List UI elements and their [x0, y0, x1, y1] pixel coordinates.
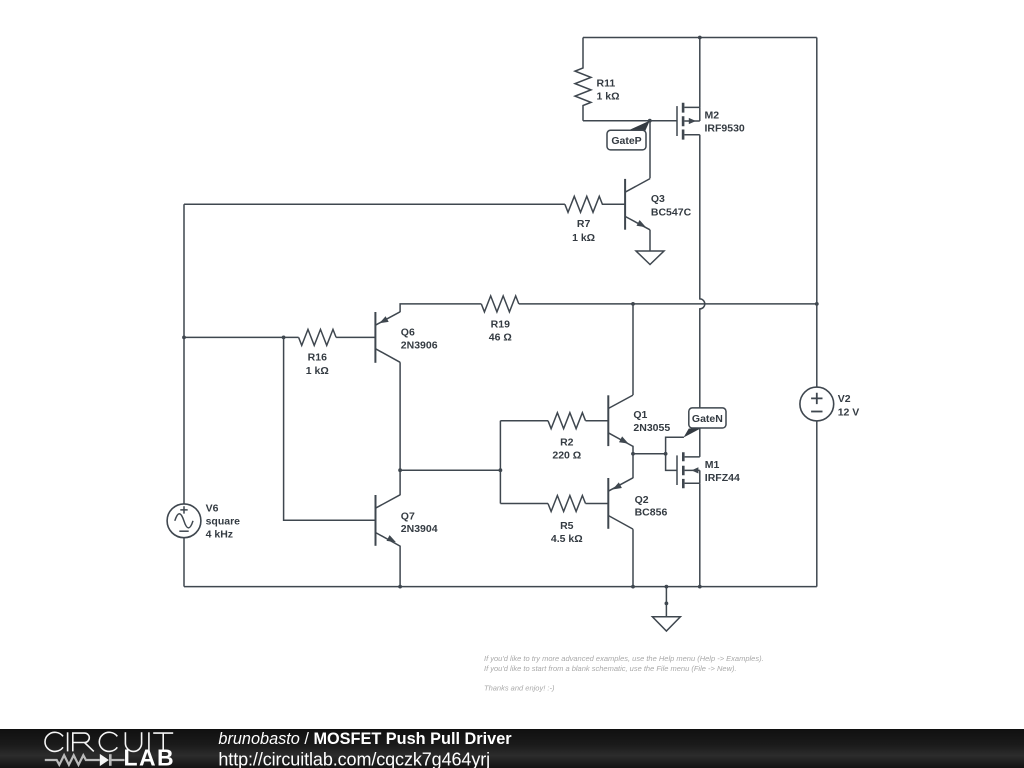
- svg-text:BC547C: BC547C: [651, 206, 692, 218]
- svg-text:M1: M1: [705, 459, 720, 471]
- junction R2R5 loop: [499, 468, 503, 472]
- wire Q7 base branch: [284, 337, 375, 520]
- wire Q1 emitter to node row: [633, 446, 666, 454]
- junction GateP node: [648, 119, 652, 123]
- svg-text:2N3904: 2N3904: [401, 523, 438, 535]
- svg-text:4 kHz: 4 kHz: [206, 529, 233, 541]
- wire R16 base net: [184, 336, 375, 338]
- wire GateN riser: [666, 437, 684, 454]
- wire M2 drain to M1 drain with hop over rail: [700, 135, 705, 457]
- svg-text:square: square: [206, 516, 241, 528]
- source V6: [167, 504, 201, 538]
- junction Q7 collector crossbar: [398, 468, 402, 472]
- svg-text:IRFZ44: IRFZ44: [705, 472, 740, 484]
- mosfet M1: [677, 452, 700, 488]
- svg-text:R16: R16: [308, 352, 327, 364]
- mosfet M2: [677, 103, 700, 140]
- wire Q3 collector riser: [649, 121, 651, 179]
- transistor Q3: [625, 179, 650, 251]
- wire left rail upper: [183, 204, 185, 504]
- wire M1 gate lead: [666, 454, 677, 471]
- wire Q7 emitter drop: [399, 546, 401, 587]
- svg-text:R7: R7: [577, 218, 591, 230]
- node flag GateP: [607, 121, 650, 150]
- arrow M2 body: [689, 118, 696, 124]
- svg-text:If you'd like to start from a: If you'd like to start from a blank sche…: [484, 664, 737, 673]
- resistor R2: [548, 413, 586, 429]
- junction ground stub: [665, 602, 669, 606]
- junction left rail R16: [182, 336, 186, 340]
- node flag GateN: [684, 408, 727, 438]
- wire Q6 emitter to rail: [400, 304, 817, 312]
- svg-text:46 Ω: 46 Ω: [489, 332, 512, 344]
- svg-text:Q3: Q3: [651, 193, 665, 205]
- svg-text:Q2: Q2: [635, 494, 649, 506]
- junction output row right: [664, 452, 668, 456]
- wire M2 source to top rail: [699, 38, 701, 108]
- svg-text:12 V: 12 V: [838, 406, 860, 418]
- resistor R7: [565, 196, 625, 212]
- transistor Q6: [375, 312, 400, 363]
- arrow Q2 emitter: [613, 482, 622, 489]
- svg-text:220 Ω: 220 Ω: [552, 449, 581, 461]
- wire right rail lower: [816, 421, 818, 587]
- logo CIRCUIT wordmark: [45, 732, 173, 751]
- arrow Q6 emitter: [379, 316, 388, 323]
- svg-text:V6: V6: [206, 503, 219, 515]
- svg-text:GateP: GateP: [611, 135, 641, 147]
- svg-text:If you'd like to try more adva: If you'd like to try more advanced examp…: [484, 654, 764, 663]
- wire R5 leads: [500, 503, 608, 505]
- help hint text: [484, 654, 764, 693]
- logo diode triangle: [100, 754, 109, 766]
- svg-text:Q6: Q6: [401, 327, 415, 339]
- arrow Q1 emitter: [619, 436, 629, 443]
- junction bottom rail ground: [665, 585, 669, 589]
- wire crossbar to R2R5 loop: [400, 469, 500, 471]
- logo squiggle resistor and diode: [45, 754, 125, 766]
- ground at bottom center: [652, 587, 680, 631]
- svg-text:R11: R11: [597, 77, 616, 89]
- svg-text:LAB: LAB: [124, 744, 175, 768]
- wire Q1 collector riser: [632, 304, 634, 395]
- svg-text:BC856: BC856: [635, 506, 668, 518]
- wire M1 source to bottom rail: [699, 483, 701, 586]
- arrow Q3 emitter: [637, 220, 647, 227]
- svg-text:2N3906: 2N3906: [401, 340, 438, 352]
- junction bottom rail Q2: [631, 585, 635, 589]
- svg-text:GateN: GateN: [692, 413, 723, 425]
- svg-text:IRF9530: IRF9530: [705, 123, 745, 135]
- junction output row left: [631, 452, 635, 456]
- svg-text:brunobasto / MOSFET Push Pull: brunobasto / MOSFET Push Pull Driver: [218, 730, 512, 748]
- svg-text:V2: V2: [838, 393, 851, 405]
- svg-text:1 kΩ: 1 kΩ: [572, 232, 595, 244]
- svg-text:1 kΩ: 1 kΩ: [597, 91, 620, 103]
- transistor Q2: [608, 478, 633, 529]
- wire left rail lower: [183, 538, 185, 587]
- transistor Q1: [608, 395, 633, 446]
- junction Q1 collector rail: [631, 302, 635, 306]
- arrow Q7 emitter: [387, 535, 397, 542]
- wire right rail upper: [816, 38, 818, 388]
- svg-text:1 kΩ: 1 kΩ: [306, 365, 329, 377]
- svg-text:M2: M2: [705, 110, 720, 122]
- resistor R11: [575, 38, 591, 121]
- junction bottom rail M1: [698, 585, 702, 589]
- svg-text:R2: R2: [560, 436, 574, 448]
- resistor R5: [548, 496, 586, 512]
- svg-text:Thanks and enjoy! :-): Thanks and enjoy! :-): [484, 684, 555, 693]
- arrow M1 body: [692, 467, 699, 473]
- ground under Q3: [636, 251, 664, 265]
- wire R2 leads: [500, 420, 608, 422]
- wire Q2 emitter riser: [632, 454, 634, 478]
- wire GateP net horizontal: [583, 120, 677, 122]
- resistor R16: [299, 329, 337, 345]
- svg-text:R5: R5: [560, 520, 574, 532]
- junction bottom rail Q7: [398, 585, 402, 589]
- svg-text:R19: R19: [491, 318, 510, 330]
- svg-text:4.5 kΩ: 4.5 kΩ: [551, 533, 583, 545]
- svg-text:http://circuitlab.com/cqczk7g4: http://circuitlab.com/cqczk7g464yrj: [218, 749, 490, 768]
- svg-text:Q1: Q1: [633, 409, 647, 421]
- wire Q6 collector to Q7 collector: [399, 362, 401, 495]
- wire Q2 collector drop: [632, 529, 634, 586]
- wire R7 left segment: [184, 203, 565, 205]
- wire R2 R5 left loop: [499, 421, 501, 504]
- resistor R19: [481, 296, 519, 312]
- wire bottom rail: [184, 586, 817, 588]
- junction top rail M2: [698, 36, 702, 40]
- junction right rail upper: [815, 302, 819, 306]
- junction R16 Q7 branch: [282, 336, 286, 340]
- svg-text:2N3055: 2N3055: [633, 422, 670, 434]
- transistor Q7: [376, 495, 401, 546]
- svg-text:Q7: Q7: [401, 511, 415, 523]
- source V2: [800, 387, 834, 421]
- wire top rail: [583, 37, 817, 39]
